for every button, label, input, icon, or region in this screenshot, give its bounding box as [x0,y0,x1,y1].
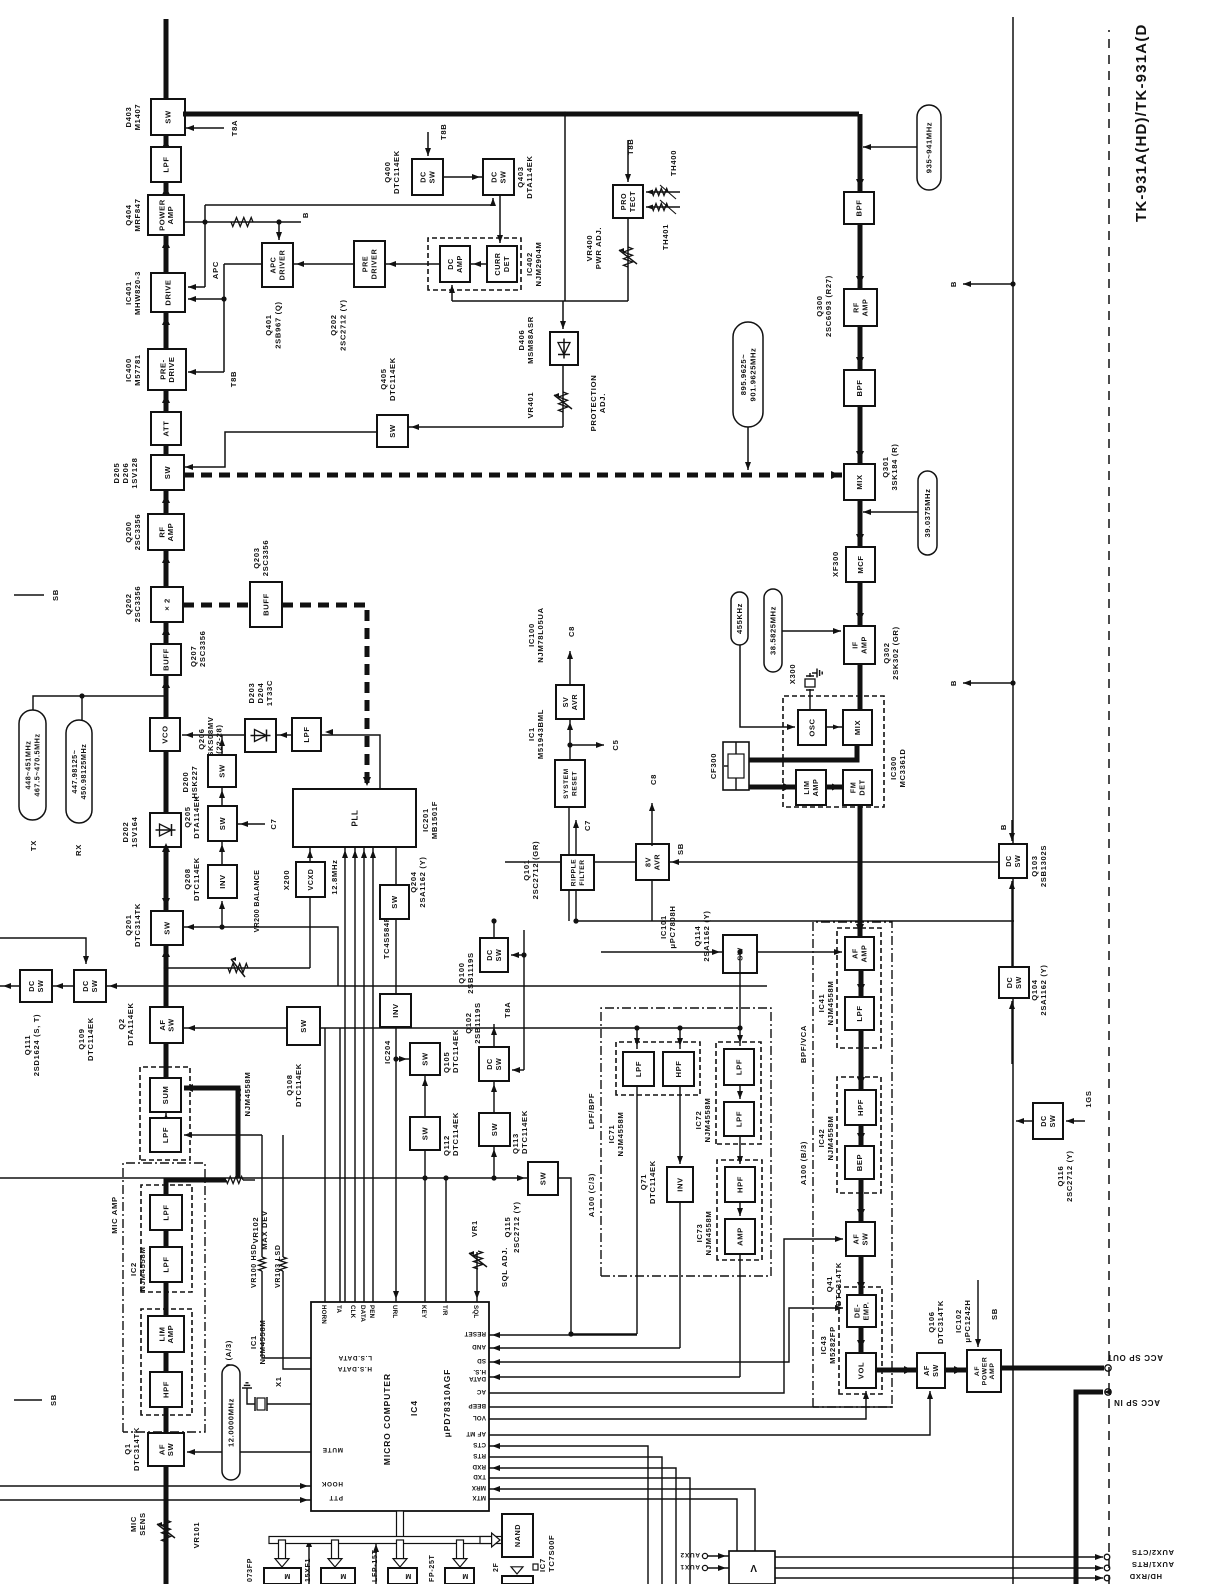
svg-text:SW: SW [539,1172,548,1186]
svg-text:C7: C7 [269,818,278,829]
svg-text:2SC3356: 2SC3356 [133,514,142,551]
svg-text:H.S.: H.S. [473,1368,486,1375]
svg-text:Q101: Q101 [522,859,531,880]
svg-text:DTC114EK: DTC114EK [86,1017,95,1061]
svg-text:IC100: IC100 [527,623,536,647]
svg-text:VOL: VOL [857,1362,866,1379]
svg-text:DTA114EK: DTA114EK [126,1002,135,1045]
svg-text:LPF: LPF [735,1059,744,1075]
svg-text:SW: SW [299,1019,308,1033]
svg-text:AMP: AMP [859,945,868,963]
svg-text:Q116: Q116 [1056,1166,1065,1187]
svg-text:MIC: MIC [129,1516,138,1532]
svg-text:MIC AMP: MIC AMP [110,1196,119,1234]
svg-text:Q205: Q205 [183,806,192,827]
svg-text:Q104: Q104 [1030,979,1039,1000]
svg-text:Q115: Q115 [503,1216,512,1237]
svg-text:BUFF: BUFF [162,648,171,671]
svg-text:HOOK: HOOK [321,1480,343,1487]
svg-text:T8A: T8A [503,1002,512,1018]
svg-text:DTC114EK: DTC114EK [392,150,401,194]
svg-text:2SK302 (GR): 2SK302 (GR) [891,626,900,680]
svg-text:X300: X300 [788,664,797,685]
svg-text:VR102: VR102 [251,1217,260,1244]
svg-text:T8B: T8B [626,139,635,155]
svg-text:μPC1242H: μPC1242H [963,1299,972,1342]
svg-text:MIX: MIX [853,720,862,735]
svg-text:PWR ADJ.: PWR ADJ. [594,227,603,269]
svg-text:Q208: Q208 [183,868,192,889]
svg-text:M5282FP: M5282FP [828,1326,837,1364]
svg-text:TECT: TECT [628,191,637,212]
svg-text:NJM4558M: NJM4558M [243,1072,252,1117]
svg-text:SB: SB [990,1308,999,1320]
svg-text:VR400: VR400 [585,235,594,262]
svg-text:Q400: Q400 [383,161,392,182]
svg-text:IC72: IC72 [694,1111,703,1130]
svg-text:Q202: Q202 [329,314,338,335]
svg-text:FILTER: FILTER [579,859,586,885]
svg-text:HD/RXD: HD/RXD [1129,1572,1162,1581]
svg-text:Q1: Q1 [123,1443,132,1455]
svg-text:M: M [284,1572,291,1579]
svg-text:AMP: AMP [811,779,820,797]
svg-text:LPF: LPF [161,1127,170,1143]
svg-text:2SA1162 (Y): 2SA1162 (Y) [702,910,711,961]
svg-text:AND: AND [472,1343,486,1350]
svg-text:DATA: DATA [359,1305,366,1322]
svg-text:2SC3356: 2SC3356 [261,540,270,577]
svg-text:SW: SW [36,980,45,993]
svg-text:LFP-15T: LFP-15T [372,1549,379,1582]
svg-text:DRIVE: DRIVE [164,279,173,305]
svg-text:M1407: M1407 [133,104,142,131]
svg-text:SW: SW [427,171,436,184]
svg-text:Q401: Q401 [264,314,273,335]
svg-text:AMP: AMP [989,1363,996,1380]
svg-text:MB1501F: MB1501F [430,801,439,839]
svg-text:IC1: IC1 [527,727,536,741]
svg-text:D204: D204 [256,682,265,703]
svg-text:AMP: AMP [166,1325,175,1344]
svg-text:NJM78L05UA: NJM78L05UA [536,607,545,663]
svg-text:VCO: VCO [161,725,170,743]
svg-text:TX: TX [29,840,38,851]
svg-text:SW: SW [164,110,173,124]
svg-text:C8: C8 [567,626,576,637]
svg-text:NJM4558M: NJM4558M [616,1112,625,1157]
svg-text:M: M [405,1572,412,1579]
svg-text:X1: X1 [274,1376,283,1387]
svg-text:447.98125~: 447.98125~ [70,749,79,793]
svg-text:OSC: OSC [808,718,817,736]
svg-text:Q112: Q112 [442,1135,451,1156]
svg-text:AVR: AVR [570,694,579,711]
svg-text:AMP: AMP [860,299,869,317]
svg-text:2SC3356: 2SC3356 [198,630,207,667]
svg-text:2SB967 (Q): 2SB967 (Q) [274,301,283,349]
svg-text:SB: SB [676,843,685,855]
svg-text:MIX: MIX [855,474,864,489]
svg-text:CTS: CTS [473,1441,486,1448]
svg-text:DTC314TK: DTC314TK [936,1300,945,1344]
svg-text:NJM4558M: NJM4558M [704,1211,713,1256]
svg-text:INV: INV [218,874,227,889]
svg-text:AVR: AVR [652,854,661,871]
svg-text:T8A: T8A [230,120,239,136]
svg-text:LPF/BPF: LPF/BPF [587,1093,596,1130]
svg-text:RESET: RESET [572,771,579,796]
svg-text:DTC114EK: DTC114EK [388,357,397,401]
svg-text:BPF/VCA: BPF/VCA [799,1025,808,1063]
svg-text:12.0000MHz: 12.0000MHz [227,1398,236,1447]
svg-text:LPF: LPF [735,1111,744,1127]
svg-text:T8B: T8B [229,371,238,387]
svg-text:SW: SW [390,895,399,909]
svg-text:SW: SW [163,921,172,935]
svg-text:SW: SW [421,1052,430,1066]
svg-text:MC3361D: MC3361D [898,748,907,787]
svg-text:Q102: Q102 [464,1012,473,1033]
svg-text:D202: D202 [121,822,130,843]
svg-text:M: M [462,1572,469,1579]
svg-text:2SC2712 (Y): 2SC2712 (Y) [1065,1150,1074,1202]
svg-text:1GS: 1GS [1084,1090,1093,1107]
svg-text:D206: D206 [121,463,130,484]
svg-text:ACC SP IN: ACC SP IN [1113,1398,1160,1407]
svg-text:LPF: LPF [634,1061,643,1077]
svg-text:448~451MHz: 448~451MHz [24,741,33,790]
svg-text:AMP: AMP [166,523,175,542]
svg-text:C7: C7 [583,820,592,831]
svg-text:HPF: HPF [856,1099,865,1116]
svg-text:IC400: IC400 [124,358,133,382]
svg-text:Q405: Q405 [379,368,388,389]
svg-text:C8: C8 [649,774,658,785]
svg-text:3SK184 (R): 3SK184 (R) [890,443,899,490]
svg-text:M: M [340,1572,347,1579]
svg-text:2SC2712 (Y): 2SC2712 (Y) [339,299,348,351]
svg-text:MSM88ASR: MSM88ASR [526,316,535,364]
svg-text:MRF847: MRF847 [133,198,142,231]
svg-text:V: V [750,1562,757,1573]
svg-text:CF300: CF300 [709,753,718,779]
svg-text:Q206: Q206 [197,728,206,749]
svg-text:Q100: Q100 [457,962,466,983]
svg-text:VR100 HSD: VR100 HSD [251,1244,258,1288]
svg-text:2SB1119S: 2SB1119S [473,1002,482,1044]
svg-text:AMP: AMP [455,255,464,273]
svg-text:AMP: AMP [736,1227,745,1246]
svg-text:DET: DET [502,256,511,272]
svg-text:DRIVER: DRIVER [369,248,378,279]
svg-text:DTC114EK: DTC114EK [451,1112,460,1156]
svg-text:SW: SW [494,949,503,962]
svg-text:SB: SB [51,589,60,601]
svg-text:Q109: Q109 [77,1028,86,1049]
svg-text:Q103: Q103 [1030,855,1039,876]
svg-text:IC102: IC102 [954,1309,963,1333]
svg-text:IC42: IC42 [817,1129,826,1148]
svg-text:VR101: VR101 [192,1522,201,1549]
svg-text:TXD: TXD [473,1473,486,1480]
svg-text:AF MT: AF MT [466,1430,486,1437]
svg-text:PROTECTION: PROTECTION [589,375,598,432]
svg-text:DTC314TK: DTC314TK [132,1427,141,1471]
svg-text:B: B [949,680,958,686]
svg-text:SUM: SUM [161,1086,170,1105]
svg-text:2F: 2F [493,1562,500,1572]
svg-text:SYSTEM: SYSTEM [563,768,570,799]
svg-text:MRX: MRX [471,1484,486,1491]
svg-text:DTC314TK: DTC314TK [834,1262,843,1306]
svg-text:μPD78310AGF: μPD78310AGF [442,1369,452,1438]
svg-text:SW: SW [490,1123,499,1137]
svg-text:DTA114EK: DTA114EK [192,795,201,838]
svg-text:T/R: T/R [441,1305,448,1316]
svg-text:B: B [949,281,958,287]
svg-text:X200: X200 [282,870,291,891]
svg-text:LPF: LPF [162,1204,171,1220]
svg-text:Q403: Q403 [516,166,525,187]
svg-text:IC7: IC7 [538,1558,547,1572]
svg-text:SW: SW [218,764,227,778]
svg-text:2SC2712 (Y): 2SC2712 (Y) [512,1201,521,1253]
svg-text:DTC114EK: DTC114EK [294,1063,303,1107]
svg-text:SB: SB [49,1394,58,1406]
svg-text:SW: SW [388,424,397,438]
svg-text:NJM4558M: NJM4558M [138,1247,147,1292]
svg-text:SW: SW [1013,855,1022,868]
svg-text:HORN: HORN [320,1305,327,1324]
svg-text:MTX: MTX [472,1494,486,1501]
svg-text:EMP.: EMP. [861,1301,870,1320]
svg-text:D403: D403 [124,107,133,128]
svg-text:Q302: Q302 [882,642,891,663]
svg-text:HSK227: HSK227 [190,766,199,799]
svg-text:2SB1119S: 2SB1119S [466,952,475,994]
svg-text:A100 (C/3): A100 (C/3) [587,1173,596,1217]
svg-text:VOL: VOL [473,1414,486,1421]
svg-text:Q114: Q114 [693,925,702,946]
svg-text:Q202: Q202 [124,593,133,614]
svg-text:AUX2: AUX2 [680,1551,700,1558]
svg-text:Q301: Q301 [881,456,890,477]
svg-text:FP-25T: FP-25T [429,1554,436,1582]
svg-text:Q207: Q207 [189,646,198,667]
svg-text:AF: AF [974,1366,981,1376]
svg-text:VR1: VR1 [470,1220,479,1237]
svg-text:Q204: Q204 [409,871,418,892]
svg-text:NJM4558M: NJM4558M [826,981,835,1026]
svg-text:CLK: CLK [349,1305,356,1319]
svg-text:IC201: IC201 [421,808,430,832]
svg-text:PLL: PLL [350,810,359,827]
svg-text:TH400: TH400 [669,150,678,176]
svg-text:T8B: T8B [439,124,448,140]
svg-text:Q2: Q2 [117,1018,126,1030]
svg-text:DTC314TK: DTC314TK [133,903,142,947]
svg-text:895.9625~: 895.9625~ [739,354,748,396]
svg-text:HPF: HPF [162,1381,171,1398]
svg-text:VR103 LSD: VR103 LSD [275,1244,282,1288]
svg-text:BEEP: BEEP [468,1402,486,1409]
svg-text:38.5825MHz: 38.5825MHz [769,606,778,655]
svg-text:1T33C: 1T33C [265,680,274,706]
svg-text:IC401: IC401 [124,281,133,305]
svg-text:SW: SW [931,1364,940,1377]
svg-text:XF300: XF300 [831,551,840,577]
svg-text:D200: D200 [181,772,190,793]
svg-text:AUX2/CTS: AUX2/CTS [1131,1548,1174,1557]
svg-text:LPF: LPF [162,156,171,172]
svg-text:M51943BML: M51943BML [536,709,545,759]
svg-text:POWER: POWER [981,1357,988,1386]
svg-text:μPC7808H: μPC7808H [668,905,677,948]
svg-text:VCXD: VCXD [308,869,315,891]
svg-text:SQL: SQL [472,1305,479,1318]
svg-text:B: B [999,824,1008,830]
svg-text:455KHz: 455KHz [735,603,744,634]
svg-text:DET: DET [857,779,866,795]
svg-text:A100 (B/3): A100 (B/3) [799,1141,808,1185]
svg-text:Q203: Q203 [252,547,261,568]
svg-text:DTC114EK: DTC114EK [520,1110,529,1154]
svg-text:BEP: BEP [855,1154,864,1171]
svg-text:LPF: LPF [855,1005,864,1021]
svg-text:TC4S584F: TC4S584F [382,917,391,959]
svg-text:SW: SW [498,171,507,184]
svg-text:IC43: IC43 [819,1336,828,1355]
svg-text:D205: D205 [112,462,121,483]
svg-text:AC: AC [476,1388,486,1395]
svg-text:DTC114EK: DTC114EK [192,857,201,901]
svg-text:LPF: LPF [302,726,311,742]
svg-text:SQL ADJ.: SQL ADJ. [500,1247,509,1287]
svg-text:MICRO COMPUTER: MICRO COMPUTER [382,1373,392,1465]
svg-text:2SD1624 (S, T): 2SD1624 (S, T) [32,1014,41,1077]
svg-text:RX: RX [74,844,83,856]
svg-text:NJM4558M: NJM4558M [703,1098,712,1143]
svg-text:901.9625MHz: 901.9625MHz [748,348,757,402]
svg-text:RIPPLE: RIPPLE [571,859,578,886]
svg-text:LPF: LPF [162,1256,171,1272]
svg-text:IC73: IC73 [695,1224,704,1243]
svg-text:SW: SW [163,466,172,480]
svg-text:TH401: TH401 [661,224,670,250]
svg-text:NJM4558M: NJM4558M [826,1116,835,1161]
svg-text:AUX1/RTS: AUX1/RTS [1131,1560,1174,1569]
svg-text:IC2: IC2 [129,1262,138,1276]
svg-text:RXD: RXD [472,1463,486,1470]
svg-text:SW: SW [166,1443,175,1457]
svg-text:TA: TA [335,1305,342,1314]
svg-text:SW: SW [494,1058,503,1071]
svg-text:Q113: Q113 [511,1133,520,1154]
svg-text:BPF: BPF [855,200,864,217]
svg-text:DATA: DATA [469,1375,486,1382]
svg-text:MCF: MCF [856,555,865,573]
svg-text:RTS: RTS [473,1452,486,1459]
svg-text:935~941MHz: 935~941MHz [925,122,934,173]
svg-text:AMP: AMP [859,636,868,654]
svg-text:IC41: IC41 [817,994,826,1013]
svg-text:39.0375MHz: 39.0375MHz [923,488,932,537]
svg-text:RESET: RESET [464,1330,486,1337]
svg-text:IC204: IC204 [383,1040,392,1064]
svg-text:NAND: NAND [513,1524,522,1547]
svg-text:2SC6093 (R27): 2SC6093 (R27) [824,275,833,337]
svg-text:IC402: IC402 [525,252,534,276]
svg-text:IC101: IC101 [659,915,668,939]
svg-text:15XF1: 15XF1 [305,1558,312,1582]
svg-text:DRIVER: DRIVER [277,249,286,280]
svg-text:AMP: AMP [166,206,175,225]
svg-text:Q300: Q300 [815,295,824,316]
svg-text:IC1: IC1 [249,1335,258,1349]
svg-text:Q105: Q105 [442,1052,451,1073]
svg-text:SW: SW [1048,1115,1057,1128]
svg-text:PTT: PTT [329,1494,343,1501]
svg-text:L.S.DATA: L.S.DATA [338,1354,372,1361]
svg-text:073FP: 073FP [247,1558,254,1582]
svg-text:INV: INV [391,1003,400,1018]
svg-text:MUTE: MUTE [322,1446,343,1453]
svg-text:2SB1302S: 2SB1302S [1039,845,1048,887]
svg-text:467.5~470.5MHz: 467.5~470.5MHz [33,733,42,796]
svg-text:SW: SW [421,1127,430,1141]
svg-text:D406: D406 [517,330,526,351]
svg-text:DRIVE: DRIVE [167,356,176,382]
svg-text:IC71: IC71 [607,1125,616,1144]
svg-text:IC300: IC300 [889,756,898,780]
svg-text:BUFF: BUFF [262,593,271,616]
svg-text:VR401: VR401 [526,392,535,419]
svg-text:H.S.DATA: H.S.DATA [337,1365,372,1372]
svg-text:PEN: PEN [368,1305,375,1319]
svg-text:HPF: HPF [674,1061,683,1078]
svg-text:VR200 BALANCE: VR200 BALANCE [254,870,261,933]
svg-text:1SV164: 1SV164 [130,816,139,847]
svg-text:APC: APC [211,261,220,279]
svg-text:2SA1162 (Y): 2SA1162 (Y) [418,856,427,907]
svg-text:SW: SW [167,1018,176,1032]
svg-text:KEY: KEY [420,1305,427,1319]
svg-text:DTA114EK: DTA114EK [525,155,534,198]
svg-text:TC7S00F: TC7S00F [547,1535,556,1572]
svg-text:URL: URL [391,1305,398,1318]
svg-text:Q404: Q404 [124,204,133,225]
svg-text:B: B [301,212,310,218]
svg-text:Q200: Q200 [124,521,133,542]
svg-text:× 2: × 2 [163,598,172,611]
svg-text:2SC3356: 2SC3356 [133,586,142,623]
svg-text:Q106: Q106 [927,1311,936,1332]
svg-text:1SV128: 1SV128 [130,457,139,488]
svg-text:SW: SW [1014,976,1023,989]
svg-text:BPF: BPF [855,380,864,397]
svg-text:AUX1: AUX1 [680,1563,700,1570]
svg-text:HPF: HPF [736,1176,745,1193]
svg-text:M57781: M57781 [133,354,142,386]
svg-text:INV: INV [676,1177,685,1192]
svg-text:450.98125MHz: 450.98125MHz [79,744,88,800]
svg-text:SW: SW [90,980,99,993]
svg-text:DTC114EK: DTC114EK [451,1029,460,1073]
svg-text:ACC SP OUT: ACC SP OUT [1107,1353,1163,1362]
svg-text:Q41: Q41 [825,1276,834,1293]
svg-text:Q108: Q108 [285,1074,294,1095]
